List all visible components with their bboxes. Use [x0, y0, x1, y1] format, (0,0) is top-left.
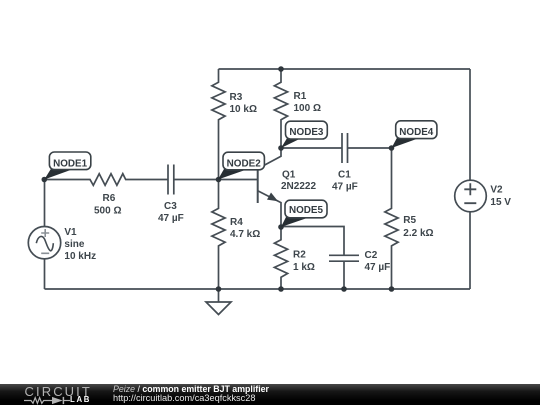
svg-text:NODE1: NODE1 — [53, 159, 88, 170]
svg-text:NODE5: NODE5 — [289, 205, 324, 216]
svg-text:15 V: 15 V — [490, 197, 511, 208]
svg-text:10 kHz: 10 kHz — [64, 251, 96, 262]
svg-text:R6: R6 — [103, 193, 116, 204]
svg-text:47 µF: 47 µF — [158, 213, 184, 224]
svg-text:1 kΩ: 1 kΩ — [293, 262, 315, 273]
svg-text:C1: C1 — [338, 170, 351, 181]
svg-text:100 Ω: 100 Ω — [294, 103, 321, 114]
svg-text:2N2222: 2N2222 — [281, 181, 316, 192]
svg-text:47 µF: 47 µF — [332, 182, 358, 193]
svg-text:2.2 kΩ: 2.2 kΩ — [403, 228, 433, 239]
svg-text:NODE2: NODE2 — [227, 159, 262, 170]
svg-text:47 µF: 47 µF — [365, 262, 391, 273]
svg-text:NODE3: NODE3 — [289, 127, 324, 138]
svg-text:sine: sine — [64, 239, 84, 250]
svg-text:R3: R3 — [230, 92, 243, 103]
svg-text:R1: R1 — [294, 91, 307, 102]
svg-text:500 Ω: 500 Ω — [94, 206, 121, 217]
svg-text:Q1: Q1 — [282, 170, 296, 181]
svg-text:C2: C2 — [365, 250, 378, 261]
svg-text:NODE4: NODE4 — [399, 127, 434, 138]
svg-text:C3: C3 — [164, 201, 177, 212]
svg-text:R4: R4 — [230, 217, 243, 228]
svg-text:V1: V1 — [64, 227, 77, 238]
svg-text:R5: R5 — [403, 215, 416, 226]
svg-text:4.7 kΩ: 4.7 kΩ — [230, 229, 260, 240]
svg-text:V2: V2 — [490, 185, 503, 196]
svg-text:10 kΩ: 10 kΩ — [230, 104, 257, 115]
svg-text:R2: R2 — [293, 250, 306, 261]
